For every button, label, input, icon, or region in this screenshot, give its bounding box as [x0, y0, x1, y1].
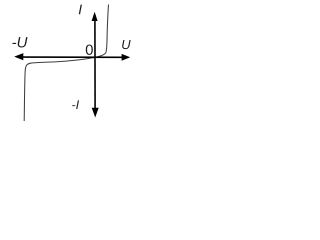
down arrowhead (-I direction) — [92, 108, 99, 118]
up arrowhead (I direction) — [92, 12, 98, 21]
label -I — [72, 100, 79, 109]
left arrowhead (-U direction) — [14, 53, 23, 60]
vertical axis (I axis) wire — [94, 15, 96, 111]
label I — [79, 5, 82, 15]
label U — [122, 40, 130, 49]
characteristic curve — [24, 5, 108, 122]
horizontal axis (U axis) wire — [20, 56, 123, 58]
right arrowhead (U direction) — [122, 54, 131, 61]
label 0 — [86, 44, 93, 54]
label -U — [12, 37, 27, 47]
